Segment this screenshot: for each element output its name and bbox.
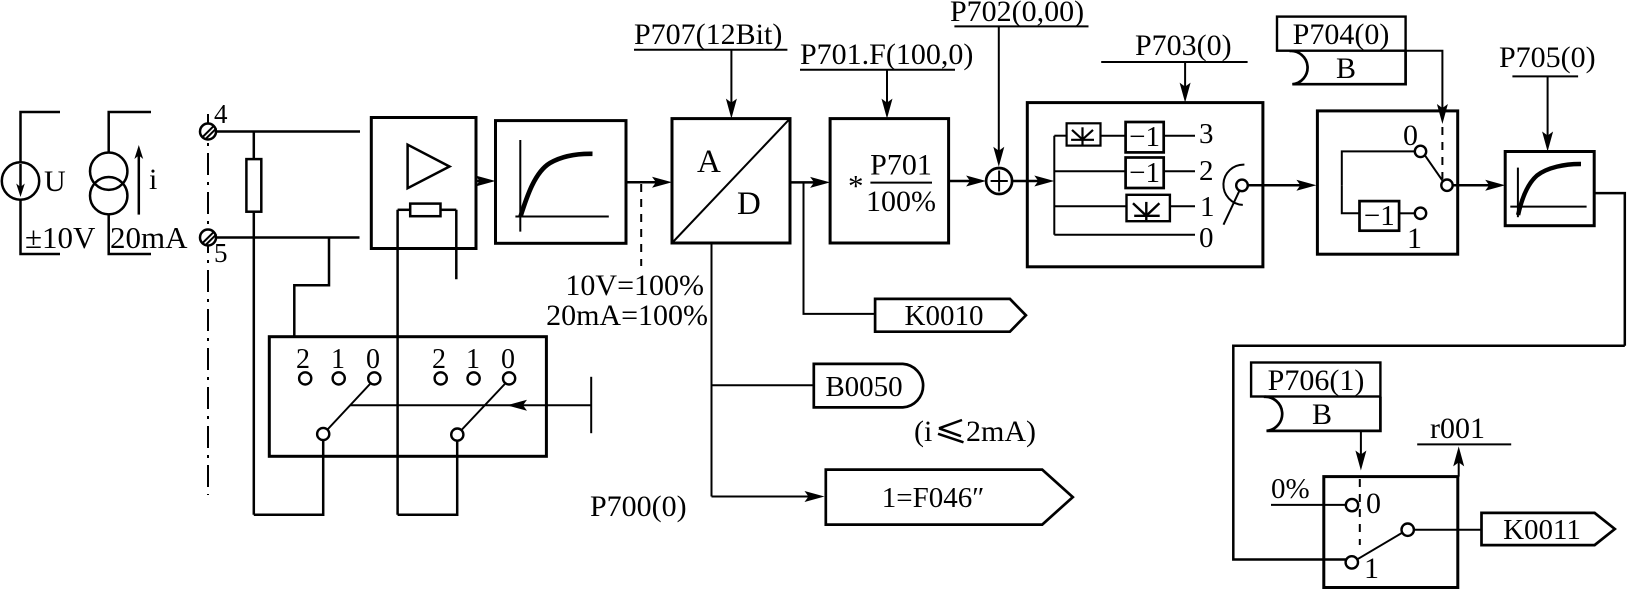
arrow P707 into A/D	[730, 50, 732, 110]
selector arm	[1224, 191, 1240, 225]
svg-text:D: D	[737, 186, 761, 222]
wire P705 out wrapping down-left	[1594, 193, 1625, 346]
svg-text:0: 0	[501, 344, 515, 375]
svg-text:0: 0	[1403, 119, 1418, 152]
selector pivot	[1236, 180, 1248, 192]
contact 1	[1346, 556, 1358, 568]
svg-text:1: 1	[1407, 222, 1422, 255]
wire A/D bottom to B0050 / F046	[711, 243, 713, 497]
svg-text:100%: 100%	[866, 185, 936, 218]
wrap wire to bottom switch	[1233, 346, 1625, 560]
binector tag B0050	[814, 364, 923, 408]
contact 0	[1415, 146, 1426, 157]
wire terminal5 to amp	[216, 236, 360, 239]
svg-text:−1: −1	[1364, 200, 1395, 232]
terminal 4	[200, 124, 217, 140]
fault banner 1=F046	[826, 470, 1073, 525]
svg-text:P701: P701	[870, 149, 932, 182]
svg-text:1: 1	[1364, 552, 1379, 585]
svg-text:U: U	[44, 165, 66, 198]
curve stroke 2	[1518, 164, 1581, 215]
parameter banner P706(1)/B	[1251, 363, 1380, 431]
arrow amp to curve box	[476, 180, 486, 183]
svg-text:0: 0	[366, 344, 380, 375]
left switch common + arm	[317, 428, 329, 440]
op-amp box	[371, 118, 476, 249]
dashed control in box	[1359, 479, 1361, 545]
svg-text:−1: −1	[1129, 121, 1160, 153]
terminal 5	[200, 230, 217, 246]
op-amp triangle	[408, 145, 450, 189]
voltage source U	[2, 112, 60, 254]
svg-text:4: 4	[214, 99, 228, 129]
arrow P705 into curve box	[1547, 76, 1549, 143]
svg-text:1=F046″: 1=F046″	[882, 482, 985, 514]
inverter -1 box	[1360, 201, 1400, 231]
svg-text:P701.F(100,0): P701.F(100,0)	[800, 38, 973, 71]
svg-text:20mA: 20mA	[110, 220, 188, 255]
svg-text:2: 2	[1199, 155, 1214, 187]
svg-text:i: i	[149, 163, 157, 196]
svg-text:P702(0,00): P702(0,00)	[950, 0, 1084, 28]
curve stroke	[521, 154, 593, 217]
level 1 row: limiter	[1054, 205, 1126, 207]
switch box P700	[269, 337, 546, 457]
wire P703 to P704 box	[1248, 184, 1306, 187]
svg-text:P704(0): P704(0)	[1293, 18, 1390, 51]
inner feed vertical	[1053, 136, 1055, 235]
common contact + arm	[1441, 180, 1452, 191]
control line end bar	[590, 377, 592, 433]
svg-text:2: 2	[296, 344, 310, 375]
svg-text:1: 1	[331, 344, 345, 375]
svg-text:P703(0): P703(0)	[1135, 29, 1232, 62]
svg-text:1: 1	[466, 344, 480, 375]
zero clamp switch box	[1324, 477, 1458, 588]
svg-text:10V=100%: 10V=100%	[565, 269, 704, 302]
wire A/D to P701	[790, 181, 820, 184]
svg-text:20mA=100%: 20mA=100%	[546, 299, 708, 332]
wire right switch common to feedback leg	[398, 441, 458, 515]
level 3 row: limiter, -1	[1054, 135, 1066, 137]
sign invert switch box P704	[1317, 111, 1457, 254]
resistor input	[246, 132, 261, 515]
limiter symbol small	[1067, 123, 1101, 145]
dashed control into common	[1441, 127, 1443, 179]
wire branch to K0010	[804, 182, 876, 314]
svg-text:B: B	[1336, 52, 1356, 85]
feedback resistor	[398, 204, 457, 217]
svg-text:2: 2	[432, 344, 446, 375]
level 0 row	[1054, 234, 1195, 236]
svg-text:±10V: ±10V	[25, 220, 96, 255]
selector arc	[1223, 165, 1244, 205]
inverter -1 box (level 3)	[1126, 122, 1164, 152]
svg-text:r001: r001	[1430, 412, 1485, 445]
right switch common + arm	[451, 429, 463, 441]
right switch contacts	[435, 372, 447, 384]
channel select box P703	[1027, 103, 1263, 267]
common contact + arm	[1402, 524, 1414, 536]
curve box 1 (smoothing)	[496, 121, 627, 244]
wire branch from terminal5 down	[294, 238, 329, 337]
svg-text:5: 5	[214, 238, 228, 268]
svg-text:0: 0	[1199, 222, 1214, 254]
scaling box *P701/100%	[830, 119, 949, 243]
wire left switch common to resistor leg	[254, 440, 323, 515]
contact 0	[1346, 499, 1358, 511]
parameter banner P704(0)/B	[1277, 17, 1406, 85]
curve box 2 (smoothing)	[1505, 152, 1594, 226]
wire P704 to P705	[1453, 184, 1495, 187]
wire curve box to A/D with dashed tap	[626, 181, 662, 184]
svg-text:P707(12Bit): P707(12Bit)	[634, 18, 782, 51]
connector tag K0011	[1482, 513, 1615, 545]
wire terminal4 to amp	[216, 130, 360, 133]
svg-text:(i: (i	[914, 415, 932, 448]
left switch contacts	[299, 372, 311, 384]
A/D converter box	[672, 119, 790, 243]
svg-text:P700(0): P700(0)	[590, 490, 687, 523]
svg-text:3: 3	[1199, 118, 1214, 150]
inverter -1 box (level 2)	[1126, 158, 1164, 189]
svg-text:A: A	[697, 144, 721, 180]
arrow P701.F into box	[886, 70, 888, 110]
svg-text:K0010: K0010	[905, 300, 984, 332]
input riser	[1342, 151, 1415, 185]
svg-text:B0050: B0050	[825, 371, 902, 403]
switch control line with left arrow from P700	[350, 404, 591, 406]
svg-text:0: 0	[1366, 487, 1381, 520]
level 2 row: -1	[1054, 170, 1125, 172]
limiter symbol large	[1127, 195, 1170, 221]
feedback right leg stub	[455, 210, 458, 279]
arrow P703 into box	[1184, 62, 1186, 94]
wire P704 banner to switch	[1406, 51, 1443, 112]
summing junction	[986, 168, 1012, 194]
connector tag K0010	[875, 299, 1026, 332]
wire common to K0011	[1414, 529, 1482, 531]
svg-text:1: 1	[1200, 191, 1215, 223]
svg-text:K0011: K0011	[1503, 514, 1581, 546]
feedback left leg through switchbox	[396, 210, 399, 515]
svg-text:P706(1): P706(1)	[1268, 364, 1365, 397]
svg-text:0%: 0%	[1271, 473, 1310, 505]
dashed tap to 10V=100% note	[640, 184, 642, 266]
wire P701 to summer	[949, 180, 976, 183]
arrow P702 into summer	[998, 26, 1000, 158]
svg-text:2mA): 2mA)	[966, 415, 1036, 448]
arrow P706 to switch	[1360, 431, 1362, 458]
svg-text:B: B	[1312, 398, 1332, 431]
wire summer to P703 selector	[1012, 180, 1044, 183]
svg-text:−1: −1	[1129, 157, 1160, 189]
current source i	[90, 112, 151, 254]
svg-text:*: *	[848, 168, 864, 203]
contact 1	[1415, 208, 1426, 219]
terminal chain line	[207, 114, 209, 495]
svg-text:P705(0): P705(0)	[1499, 41, 1596, 74]
